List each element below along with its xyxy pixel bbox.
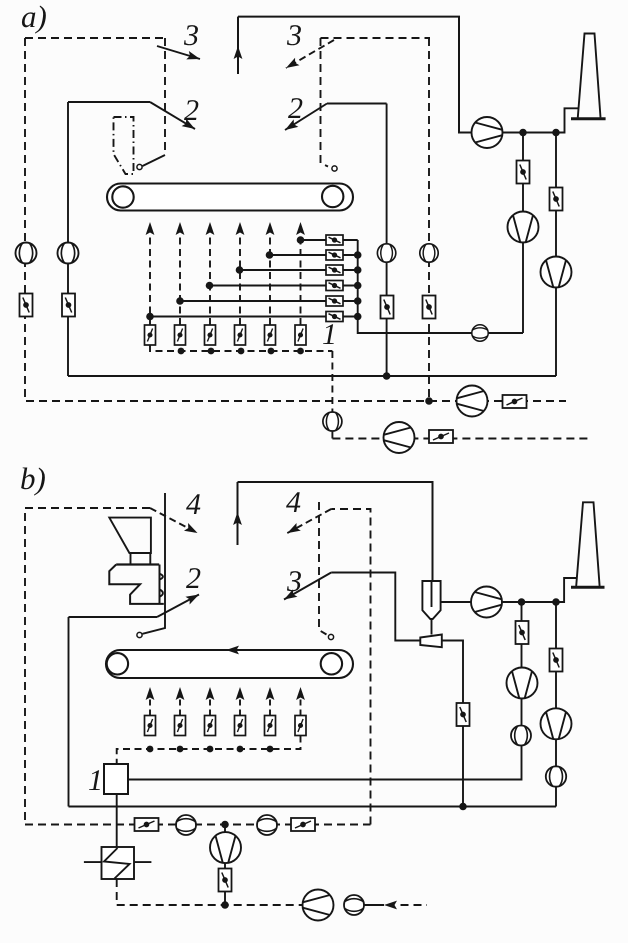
flow meter fresh air bbox=[344, 895, 364, 915]
windbox b valve 1 bbox=[145, 716, 156, 736]
sinter belt b bbox=[106, 650, 353, 678]
damper on duct x=429 bbox=[423, 296, 436, 319]
arrow leader 2 right bbox=[285, 104, 327, 131]
flow meter on manifold drop bbox=[323, 412, 342, 431]
flow meter on duct x=386.6 bbox=[377, 244, 395, 262]
wire: chimney connection step bbox=[556, 108, 579, 132]
wire: fresh air line with arrow bbox=[364, 904, 384, 906]
windbox column 4 bbox=[239, 234, 241, 325]
main exhaust fan bbox=[472, 117, 503, 148]
windbox valve 1 bbox=[145, 325, 156, 345]
svg-text:3: 3 bbox=[183, 19, 199, 52]
stack valve 6 bbox=[326, 312, 343, 322]
stack valve 2 bbox=[326, 250, 343, 260]
junction dot col5 branch bbox=[266, 251, 274, 259]
wire: duct 3 horizontal bbox=[331, 573, 420, 641]
junction dot fan b outlet 1 bbox=[518, 598, 526, 606]
stack valve 3 bbox=[326, 265, 343, 275]
wire: stack collector vertical bbox=[343, 240, 358, 317]
windbox b valve 5 bbox=[265, 716, 276, 736]
junction dot manifold b col3 bbox=[207, 746, 214, 753]
pivot right flap b bbox=[328, 634, 333, 639]
arrow leader 2 left bbox=[150, 102, 195, 129]
wire: dashed left wall and top run bbox=[25, 508, 150, 825]
valve on lower return y=438.5 bbox=[429, 430, 453, 443]
wire: pump column x=556 bbox=[555, 133, 557, 377]
junction dot stack 3 bbox=[354, 266, 362, 274]
cyclone dust leg bbox=[431, 619, 433, 635]
svg-text:2: 2 bbox=[186, 562, 201, 595]
belt travel arrow bbox=[226, 646, 239, 655]
windbox b valve 6 bbox=[295, 716, 306, 736]
svg-text:1: 1 bbox=[322, 318, 337, 351]
junction dot col4 branch bbox=[236, 266, 244, 274]
branch line col6 to stack valve 1 bbox=[301, 239, 327, 241]
wire: pump column x=523 bbox=[522, 133, 524, 334]
wire: solid bottom run y=806.5 bbox=[69, 806, 557, 808]
wire: dashed top-right horizontal bbox=[321, 37, 431, 39]
chimney b bbox=[576, 502, 599, 586]
junction dot fan outlet 2 bbox=[552, 129, 560, 137]
junction dot stack 5 bbox=[354, 297, 362, 305]
recirc blower x=556 bbox=[541, 708, 572, 739]
windbox valve 3 bbox=[205, 325, 216, 345]
svg-text:2: 2 bbox=[288, 92, 303, 125]
belt b right roller bbox=[321, 653, 342, 674]
junction dot manifold b col4 bbox=[237, 746, 244, 753]
wire: duct 2 right vertical x=386.6 bbox=[386, 104, 388, 377]
wire: duct 2 horizontal bbox=[69, 616, 158, 618]
wire: dashed vertical duct x=429 bbox=[428, 38, 430, 401]
recirculation blower x=523 bbox=[508, 212, 539, 243]
wire: manifold drop x=332.4 bbox=[331, 351, 333, 439]
wire: ejector outlet to damper column bbox=[442, 641, 463, 807]
wire: recirc column x=521.5 bbox=[128, 602, 522, 780]
belt right roller bbox=[322, 186, 343, 207]
stack valve 5 bbox=[326, 296, 343, 306]
wire: windbox b manifold dashed y=749 bbox=[117, 736, 301, 765]
junction dot manifold col4 bbox=[238, 348, 245, 355]
flow meter on dash run right bbox=[257, 815, 277, 835]
windbox b column 3 bbox=[209, 698, 211, 716]
wire: heat exchanger to bottom dashed run bbox=[117, 879, 303, 905]
recirculation blower x=556 bbox=[541, 257, 572, 288]
windbox column 6 bbox=[300, 234, 302, 325]
wire: solid left duct wall x=68 bbox=[67, 102, 69, 376]
junction dot dash run y=824.5 bbox=[221, 821, 229, 829]
arrow leader 4 right dashed bbox=[287, 509, 331, 533]
wire: dashed bottom recirculation y=824.5 bbox=[25, 824, 371, 826]
arrow leader 4 left dashed bbox=[150, 508, 198, 533]
damper on column x=521.5 bbox=[516, 621, 529, 644]
junction dot manifold b col5 bbox=[267, 746, 274, 753]
svg-text:2: 2 bbox=[184, 94, 199, 127]
junction dot manifold col5 bbox=[268, 348, 275, 355]
gauge on collector line bbox=[472, 325, 488, 341]
wire: chimney connection step b bbox=[556, 578, 578, 602]
junction dot col1 branch bbox=[146, 313, 154, 321]
valve on dash run y=824.5 right bbox=[291, 818, 315, 831]
blower on lower return y=438.5 bbox=[384, 422, 415, 453]
wire: dashed recirculation loop left wall and bottom run bbox=[25, 38, 566, 401]
valve on dashed return y=401 bbox=[503, 395, 527, 408]
junction dot manifold col2 bbox=[178, 348, 185, 355]
junction dot manifold col6 bbox=[297, 348, 304, 355]
branch line col5 to stack valve 2 bbox=[270, 254, 327, 256]
wire: branch from dash run to hot blower bbox=[224, 825, 226, 906]
windbox b valve 4 bbox=[235, 716, 246, 736]
windbox column 3 bbox=[209, 234, 211, 325]
blower on dashed return y=401 bbox=[457, 386, 488, 417]
junction dot y376 bbox=[383, 372, 391, 380]
junction dot stack 2 bbox=[354, 251, 362, 259]
windbox column 2 bbox=[179, 234, 181, 325]
junction dot stack 6 bbox=[354, 313, 362, 321]
damper on dust column x=463 bbox=[457, 703, 470, 726]
heat exchanger stubs bbox=[84, 861, 151, 863]
windbox valve 2 bbox=[175, 325, 186, 345]
flow meter on solid left wall bbox=[58, 243, 79, 264]
damper on duct x=386.6 bbox=[381, 296, 394, 319]
wire: offgas top duct b bbox=[238, 482, 433, 581]
arrow leader 3 right bbox=[284, 573, 331, 600]
svg-text:3: 3 bbox=[286, 565, 302, 598]
junction dot bottom dashed y=905 bbox=[221, 901, 229, 909]
junction dot col3 branch bbox=[206, 282, 214, 290]
ejector wedge bbox=[420, 635, 442, 648]
branch line col2 to stack valve 5 bbox=[180, 300, 326, 302]
wire: box to heat exchanger bbox=[116, 794, 118, 847]
stack valve 4 bbox=[326, 281, 343, 291]
junction dot y401 bbox=[425, 397, 433, 405]
wire: cyclone gas outlet bbox=[441, 601, 556, 603]
pivot left flap bbox=[137, 164, 142, 169]
windbox valve 6 bbox=[295, 325, 306, 345]
cyclone inner tube bbox=[431, 581, 433, 607]
stack valve 1 bbox=[326, 235, 343, 245]
windbox b column 5 bbox=[269, 698, 271, 716]
svg-text:3: 3 bbox=[286, 19, 302, 52]
feeder seal bump lower bbox=[160, 590, 163, 597]
windbox column 5 bbox=[269, 234, 271, 325]
junction dot dust column y=806.5 bbox=[459, 803, 467, 811]
wire: offgas top duct bbox=[238, 17, 556, 133]
cyclone exhaust fan b bbox=[471, 587, 502, 618]
chimney base bbox=[571, 117, 606, 120]
feeder body bbox=[109, 565, 164, 604]
windbox valve 4 bbox=[235, 325, 246, 345]
windbox b valve 2 bbox=[175, 716, 186, 736]
damper on column x=523 bbox=[517, 161, 530, 184]
wire: windbox manifold dashed y=351 bbox=[150, 345, 332, 351]
pivot left flap b bbox=[137, 632, 142, 637]
sinter belt bbox=[107, 184, 353, 211]
junction dot fan b outlet 2 bbox=[552, 598, 560, 606]
svg-text:b): b) bbox=[20, 461, 46, 496]
svg-text:a): a) bbox=[21, 0, 47, 34]
pivot right flap bbox=[332, 166, 337, 171]
branch line col4 to stack valve 3 bbox=[240, 269, 327, 271]
wire: duct 2 left horizontal bbox=[68, 101, 150, 103]
windbox b valve 3 bbox=[205, 716, 216, 736]
junction dot manifold b col1 bbox=[147, 746, 154, 753]
heat exchanger bbox=[102, 847, 135, 879]
flow meter on dashed left wall bbox=[16, 243, 37, 264]
wire: dashed top-left horizontal bbox=[25, 37, 165, 39]
branch line col3 to stack valve 4 bbox=[210, 285, 327, 287]
wire: dashed chamber wall x=319 bbox=[319, 502, 327, 635]
valve on dash run y=824.5 left bbox=[135, 818, 159, 831]
windbox column 1 dashed with up arrow bbox=[149, 234, 151, 325]
wire: solid bottom run y=376 bbox=[68, 375, 556, 377]
belt left roller bbox=[112, 186, 133, 207]
wire: dashed chamber left wall x=165 bbox=[164, 38, 166, 155]
junction dot manifold col3 bbox=[208, 348, 215, 355]
junction dot fan outlet 1 bbox=[519, 129, 527, 137]
fresh air intake pump bbox=[303, 890, 334, 921]
damper on dashed left wall bbox=[20, 294, 33, 317]
windbox b column 1 dashed with up arrow bbox=[149, 698, 151, 716]
junction dot stack 4 bbox=[354, 282, 362, 290]
flow meter below blower x=556 bbox=[546, 766, 566, 786]
damper below hot blower bbox=[219, 869, 232, 892]
wire: riser with up arrow bbox=[237, 17, 239, 74]
recirc blower x=521.5 bbox=[507, 668, 538, 699]
wire: solid left wall x=68.5 bbox=[68, 617, 70, 807]
chimney b base bbox=[571, 586, 605, 589]
cyclone body bbox=[422, 581, 440, 619]
windbox valve 5 bbox=[265, 325, 276, 345]
belt b left roller bbox=[107, 653, 128, 674]
wire: recirc column x=556 bbox=[555, 602, 557, 807]
wire: dashed chamber right wall x=320.5 bbox=[321, 38, 329, 167]
damper on column x=556 bbox=[550, 649, 563, 672]
arrow leader 3 left bbox=[157, 46, 200, 59]
chimney bbox=[578, 34, 601, 118]
svg-text:4: 4 bbox=[286, 486, 301, 519]
junction dot col2 branch bbox=[176, 297, 184, 305]
wire: lower dashed return y=438.5 bbox=[332, 438, 590, 440]
arrow leader 3 right dashed bbox=[286, 40, 334, 68]
windbox b column 4 bbox=[239, 698, 241, 716]
damper on solid left wall bbox=[62, 294, 75, 317]
mixer box 1 bbox=[104, 764, 128, 794]
windbox b column 6 bbox=[300, 698, 302, 716]
wire: riser with up arrow b bbox=[237, 482, 239, 545]
wire: duct 2 right horizontal bbox=[327, 103, 387, 105]
wire: dashed right wall x=370.5 bbox=[331, 509, 370, 825]
hopper (dash-dot ghost) bbox=[114, 117, 134, 174]
charge hopper neck bbox=[131, 553, 151, 564]
flow meter below blower x=521.5 bbox=[511, 726, 531, 746]
svg-text:4: 4 bbox=[186, 488, 201, 521]
charge hopper funnel bbox=[109, 518, 151, 553]
feeder flange bbox=[116, 563, 159, 565]
flow meter on duct x=429 bbox=[420, 244, 438, 262]
wire: chamber wall x=165 bbox=[143, 493, 166, 634]
feeder seal bump upper bbox=[160, 574, 163, 580]
arrow leader 2 bbox=[157, 595, 199, 618]
branch line col1 to stack valve 6 bbox=[150, 316, 326, 318]
damper flap left chamber bbox=[143, 155, 166, 166]
flow meter on dash run left bbox=[176, 815, 196, 835]
svg-text:1: 1 bbox=[88, 764, 103, 797]
heat exchanger zigzag bbox=[104, 848, 130, 879]
wire: fresh air dashed tail bbox=[401, 904, 428, 906]
junction dot manifold b col2 bbox=[177, 746, 184, 753]
windbox b column 2 bbox=[179, 698, 181, 716]
damper on column x=556 bbox=[550, 188, 563, 211]
junction dot col6 branch bbox=[297, 236, 305, 244]
hot return blower bbox=[210, 832, 241, 863]
